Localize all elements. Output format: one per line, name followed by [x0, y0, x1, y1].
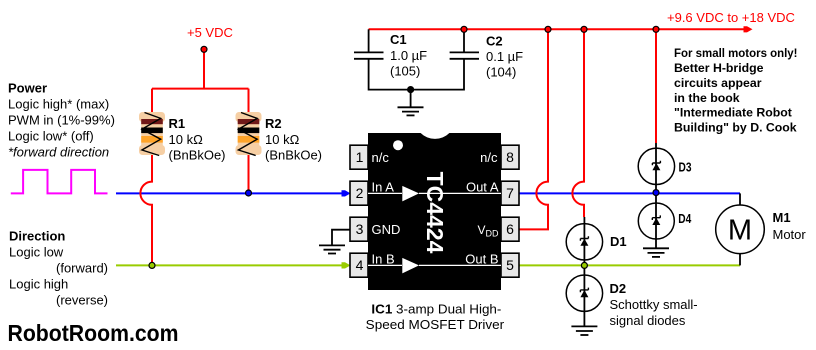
- svg-text:C1: C1: [390, 32, 407, 47]
- svg-text:"Intermediate Robot: "Intermediate Robot: [674, 106, 792, 120]
- svg-text:Direction: Direction: [9, 228, 65, 243]
- svg-text:Out A: Out A: [466, 179, 499, 194]
- svg-text:Power: Power: [8, 81, 47, 96]
- svg-text:Logic high: Logic high: [9, 277, 68, 292]
- svg-text:10 kΩ: 10 kΩ: [169, 132, 204, 147]
- svg-text:C2: C2: [486, 33, 503, 48]
- svg-text:(105): (105): [390, 63, 420, 78]
- svg-text:GND: GND: [372, 222, 401, 237]
- svg-text:+9.6 VDC to +18 VDC: +9.6 VDC to +18 VDC: [667, 10, 795, 25]
- svg-text:(BnBkOe): (BnBkOe): [265, 148, 322, 163]
- svg-text:In A: In A: [372, 179, 395, 194]
- svg-text:IC1 3-amp Dual High-: IC1 3-amp Dual High-: [371, 301, 501, 316]
- svg-text:M: M: [728, 215, 752, 247]
- svg-text:D4: D4: [678, 211, 692, 226]
- svg-text:10 kΩ: 10 kΩ: [265, 132, 300, 147]
- svg-text:2: 2: [356, 185, 364, 201]
- svg-text:In B: In B: [372, 251, 395, 266]
- svg-text:Better H-bridge: Better H-bridge: [674, 61, 764, 75]
- svg-text:8: 8: [506, 149, 514, 165]
- svg-text:5: 5: [506, 257, 514, 273]
- svg-text:*forward direction: *forward direction: [8, 145, 109, 160]
- svg-text:n/c: n/c: [480, 150, 498, 165]
- svg-text:Speed MOSFET Driver: Speed MOSFET Driver: [366, 317, 505, 332]
- svg-text:M1: M1: [773, 210, 791, 225]
- svg-text:For small motors only!: For small motors only!: [674, 46, 798, 60]
- svg-text:TC4424: TC4424: [422, 172, 448, 254]
- svg-text:Building" by D. Cook: Building" by D. Cook: [674, 120, 797, 134]
- svg-text:R1: R1: [169, 116, 186, 131]
- svg-text:+5 VDC: +5 VDC: [187, 25, 233, 40]
- svg-text:4: 4: [356, 257, 364, 273]
- svg-text:PWM in (1%-99%): PWM in (1%-99%): [8, 113, 115, 128]
- svg-text:6: 6: [506, 221, 514, 237]
- svg-text:D1: D1: [610, 234, 627, 249]
- svg-text:Out B: Out B: [465, 251, 498, 266]
- svg-text:RobotRoom.com: RobotRoom.com: [8, 320, 179, 346]
- svg-text:D2: D2: [610, 281, 627, 296]
- svg-text:7: 7: [506, 185, 514, 201]
- svg-text:in the book: in the book: [674, 91, 740, 105]
- svg-text:Schottky small-: Schottky small-: [610, 297, 698, 312]
- svg-text:R2: R2: [265, 116, 282, 131]
- svg-text:(forward): (forward): [56, 261, 108, 276]
- svg-text:Logic high* (max): Logic high* (max): [8, 97, 109, 112]
- svg-text:1.0 µF: 1.0 µF: [390, 48, 427, 63]
- svg-text:(reverse): (reverse): [56, 293, 108, 308]
- svg-text:(104): (104): [486, 64, 516, 79]
- svg-text:1: 1: [356, 149, 364, 165]
- svg-text:n/c: n/c: [372, 150, 390, 165]
- svg-text:0.1 µF: 0.1 µF: [486, 49, 523, 64]
- svg-text:Motor: Motor: [773, 227, 807, 242]
- svg-text:(BnBkOe): (BnBkOe): [169, 148, 226, 163]
- svg-text:3: 3: [356, 221, 364, 237]
- svg-text:circuits appear: circuits appear: [674, 76, 762, 90]
- svg-text:Logic low* (off): Logic low* (off): [8, 129, 94, 144]
- svg-text:Logic low: Logic low: [9, 244, 64, 259]
- svg-text:D3: D3: [679, 160, 692, 175]
- svg-text:signal diodes: signal diodes: [610, 313, 686, 328]
